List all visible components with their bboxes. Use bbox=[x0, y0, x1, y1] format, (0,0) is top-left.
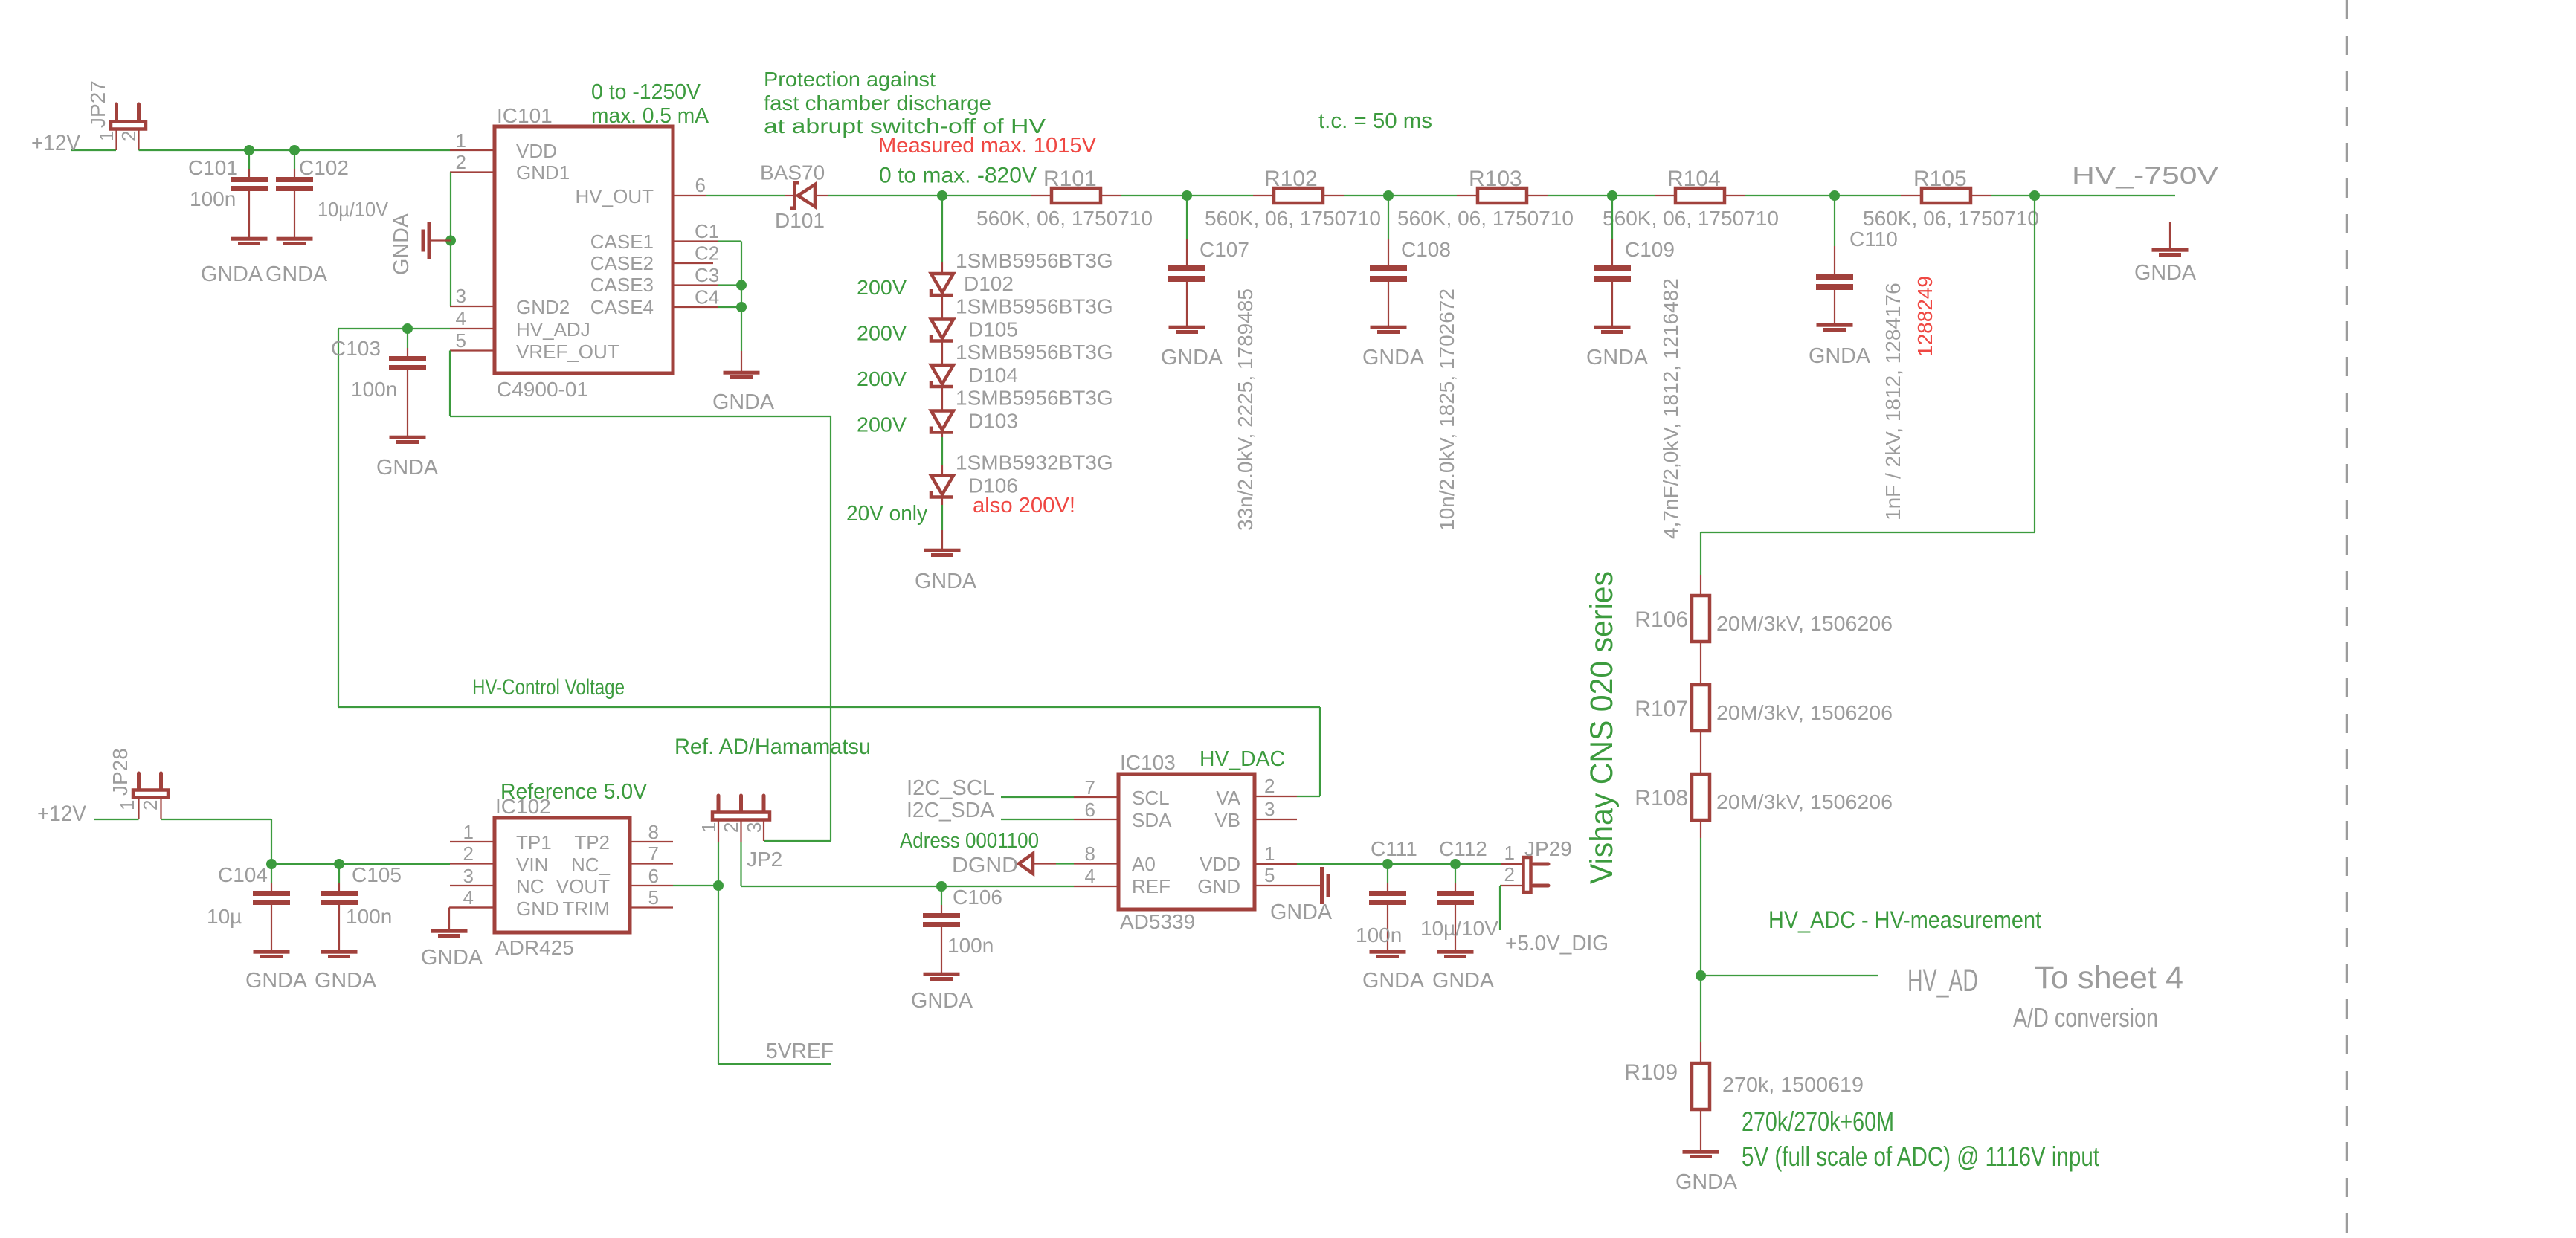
junction at C108 bbox=[1383, 190, 1394, 201]
svg-text:VDD: VDD bbox=[1200, 853, 1240, 875]
net +12V (top) wire left segment bbox=[71, 149, 116, 151]
value C110 (rotated) bbox=[1881, 283, 1904, 520]
svg-text:560K, 06, 1750710: 560K, 06, 1750710 bbox=[1603, 207, 1779, 230]
svg-text:3: 3 bbox=[463, 865, 474, 887]
ground GNDA (C102) bbox=[265, 262, 328, 286]
label R108 bbox=[1635, 786, 1688, 810]
ground label GNDA (zener chain) bbox=[915, 570, 977, 593]
IC102 pin name TRIM bbox=[562, 897, 610, 920]
svg-text:CASE2: CASE2 bbox=[590, 252, 654, 274]
value C102 10u/10V bbox=[318, 198, 388, 221]
resistor R105 bbox=[1901, 188, 1991, 203]
svg-text:1SMB5956BT3G: 1SMB5956BT3G bbox=[956, 295, 1113, 318]
jumper JP29 bbox=[1501, 857, 1548, 892]
JP29 pin 2 number bbox=[1504, 863, 1515, 886]
wire HV-Control drop to VA bbox=[1297, 707, 1320, 796]
annotation HV_DAC bbox=[1200, 747, 1285, 771]
net label HV_-750V bbox=[2072, 162, 2219, 189]
IC101 pin 5 stub bbox=[450, 349, 495, 351]
IC102 pin name VOUT bbox=[556, 875, 610, 897]
ground label GNDA (IC103 pin5) bbox=[1270, 900, 1333, 924]
ground symbol GNDA (IC101 case) bbox=[724, 307, 760, 379]
svg-text:R102: R102 bbox=[1264, 167, 1318, 191]
wire 5VREF bbox=[718, 886, 831, 1064]
annotation Ref. AD/Hamamatsu bbox=[674, 735, 871, 759]
svg-text:C2: C2 bbox=[695, 242, 719, 265]
svg-text:TRIM: TRIM bbox=[562, 897, 610, 920]
lead to D106 bbox=[941, 465, 943, 474]
svg-text:DGND: DGND bbox=[952, 854, 1018, 877]
junction at C106 bbox=[936, 881, 947, 892]
svg-text:Protection against: Protection against bbox=[764, 68, 936, 91]
svg-text:10µ/10V: 10µ/10V bbox=[318, 198, 388, 221]
IC101 pin name CASE3 bbox=[590, 274, 654, 296]
label R105 bbox=[1913, 167, 1967, 191]
svg-text:R105: R105 bbox=[1913, 167, 1967, 191]
svg-text:GNDA: GNDA bbox=[1161, 346, 1223, 370]
label C105 bbox=[352, 863, 402, 886]
wire rail seg4 bbox=[1344, 195, 1388, 196]
IC103 pin 8 number bbox=[1085, 842, 1095, 865]
svg-text:IC103: IC103 bbox=[1120, 751, 1176, 774]
svg-text:HV_OUT: HV_OUT bbox=[576, 185, 654, 207]
annotation Protection line2 bbox=[764, 91, 991, 115]
ground GNDA (C110) bbox=[1809, 344, 1871, 368]
junction CASE4 bbox=[736, 302, 747, 312]
capacitor C112 bbox=[1437, 864, 1474, 958]
svg-text:GNDA: GNDA bbox=[1586, 346, 1649, 370]
svg-text:2: 2 bbox=[720, 822, 742, 833]
IC102 pin name VIN bbox=[516, 854, 548, 876]
ground symbol GNDA (right) bbox=[2152, 222, 2189, 257]
label C101 bbox=[188, 156, 238, 179]
value R101 bbox=[976, 207, 1153, 230]
value R109 bbox=[1722, 1073, 1864, 1096]
IC101 pin name CASE4 bbox=[590, 296, 654, 318]
value R103 bbox=[1397, 207, 1574, 230]
IC101 pin name HV_OUT bbox=[576, 185, 654, 207]
svg-text:GNDA: GNDA bbox=[315, 969, 377, 993]
svg-text:VIN: VIN bbox=[516, 854, 548, 876]
junction at C105 bbox=[334, 859, 344, 869]
annotation HV_ADC - HV-measurement bbox=[1768, 906, 2041, 933]
JP28 pin 1 number bbox=[116, 800, 138, 810]
wire C106 to REF bbox=[941, 886, 1074, 887]
label C3 bbox=[695, 264, 719, 286]
IC103 pin 1 number bbox=[1264, 842, 1275, 865]
wire VOUT to junction bbox=[673, 885, 718, 886]
svg-text:33n/2.0kV, 2225, 1789485: 33n/2.0kV, 2225, 1789485 bbox=[1234, 288, 1257, 531]
svg-text:HV-Control Voltage: HV-Control Voltage bbox=[472, 675, 625, 700]
svg-text:100n: 100n bbox=[190, 187, 236, 210]
wire JP2 pin1 to junction bbox=[718, 842, 719, 886]
value C4900-01 bbox=[497, 378, 588, 401]
capacitor C107 bbox=[1168, 196, 1205, 334]
value AD5339 bbox=[1120, 910, 1195, 933]
svg-text:R107: R107 bbox=[1635, 697, 1688, 721]
svg-text:A/D conversion: A/D conversion bbox=[2013, 1002, 2158, 1033]
IC103 pin 3 number bbox=[1264, 798, 1275, 820]
IC103 pin 7 number bbox=[1085, 776, 1095, 799]
svg-text:A0: A0 bbox=[1132, 853, 1156, 875]
lead D105-D104 bbox=[941, 343, 943, 364]
annotation HV-Control Voltage bbox=[472, 675, 625, 700]
IC103 pin name A0 bbox=[1132, 853, 1156, 875]
capacitor C106 bbox=[923, 886, 960, 981]
svg-text:max. 0.5 mA: max. 0.5 mA bbox=[591, 104, 709, 128]
label D101 bbox=[775, 209, 825, 232]
wire rail seg3 bbox=[1187, 195, 1253, 196]
junction at C109 bbox=[1607, 190, 1617, 201]
JP27 pin 2 number bbox=[117, 131, 140, 141]
svg-text:R101: R101 bbox=[1043, 167, 1097, 191]
svg-text:I2C_SCL: I2C_SCL bbox=[907, 776, 994, 800]
annotation 20V only bbox=[846, 502, 927, 526]
ground GNDA (C104) bbox=[245, 969, 308, 993]
zener diode D103 bbox=[931, 411, 953, 433]
label IC102 bbox=[495, 795, 551, 818]
IC101 pin 6 number bbox=[695, 174, 706, 196]
IC101 pin name CASE2 bbox=[590, 252, 654, 274]
IC102 pin name TP2 bbox=[574, 831, 610, 854]
voltage reference IC102 box bbox=[495, 818, 630, 932]
label IC101 bbox=[497, 104, 553, 127]
annotation Vishay CNS 020 series (rotated) bbox=[1584, 571, 1620, 884]
value C111 bbox=[1356, 923, 1402, 947]
svg-text:5VREF: 5VREF bbox=[766, 1039, 834, 1063]
svg-text:1: 1 bbox=[456, 129, 466, 152]
diode D101 BAS70 bbox=[785, 183, 828, 208]
IC102 pin name TP1 bbox=[516, 831, 552, 854]
value C103 100n bbox=[351, 378, 397, 401]
zener diode D104 bbox=[931, 365, 953, 387]
label R101 bbox=[1043, 167, 1097, 191]
svg-text:8: 8 bbox=[1085, 842, 1095, 865]
capacitor C109 bbox=[1594, 196, 1631, 334]
junction at C111 bbox=[1382, 859, 1393, 869]
svg-text:Ref. AD/Hamamatsu: Ref. AD/Hamamatsu bbox=[674, 735, 871, 759]
JP29 pin 1 number bbox=[1504, 842, 1515, 864]
svg-text:C106: C106 bbox=[953, 886, 1002, 909]
svg-text:5: 5 bbox=[648, 886, 659, 909]
annotation 200V (D105) bbox=[857, 322, 907, 345]
capacitor C108 bbox=[1370, 196, 1407, 334]
svg-text:IC102: IC102 bbox=[495, 795, 551, 818]
svg-text:1nF / 2kV, 1812, 1284176: 1nF / 2kV, 1812, 1284176 bbox=[1881, 283, 1904, 520]
svg-text:GNDA: GNDA bbox=[1270, 900, 1333, 924]
IC101 CASE1 stub bbox=[673, 240, 718, 242]
svg-text:C111: C111 bbox=[1371, 837, 1417, 860]
IC101 pin name GND2 bbox=[516, 296, 570, 318]
jumper JP27 bbox=[111, 104, 146, 150]
op-amp/HV module IC101 box bbox=[495, 126, 673, 373]
value R108 bbox=[1716, 790, 1893, 813]
label C108 bbox=[1401, 238, 1451, 261]
annotation 270k/270k+60M bbox=[1742, 1106, 1894, 1137]
svg-text:C101: C101 bbox=[188, 156, 238, 179]
svg-text:+12V: +12V bbox=[37, 802, 86, 826]
svg-text:CASE1: CASE1 bbox=[590, 230, 654, 253]
label D103 bbox=[968, 410, 1018, 433]
svg-text:I2C_SDA: I2C_SDA bbox=[907, 799, 995, 822]
label JP29 bbox=[1524, 837, 1572, 860]
label C109 bbox=[1625, 238, 1675, 261]
annotation 200V (D102) bbox=[857, 276, 907, 299]
junction CASE3 bbox=[736, 280, 747, 291]
ground symbol GNDA (IC102) bbox=[431, 908, 495, 938]
annotation 200V (D103) bbox=[857, 413, 907, 436]
IC103 pin name REF bbox=[1132, 875, 1171, 897]
svg-text:2: 2 bbox=[456, 151, 466, 173]
label R109 bbox=[1624, 1060, 1678, 1085]
annotation Protection against line1 bbox=[764, 68, 936, 91]
svg-text:GNDA: GNDA bbox=[1362, 969, 1425, 993]
label BAS70 bbox=[760, 161, 825, 184]
wire rail seg5 bbox=[1388, 195, 1457, 196]
label C110 bbox=[1849, 228, 1898, 251]
svg-text:+12V: +12V bbox=[31, 131, 80, 155]
ground label GNDA (IC102) bbox=[421, 946, 483, 970]
svg-text:+5.0V_DIG: +5.0V_DIG bbox=[1505, 932, 1609, 955]
label D105 bbox=[968, 318, 1018, 341]
label C4 bbox=[695, 286, 719, 309]
IC102 pin 7 stub bbox=[630, 863, 673, 864]
svg-text:1SMB5932BT3G: 1SMB5932BT3G bbox=[956, 451, 1113, 474]
ground label GNDA (IC101, rotated) bbox=[390, 213, 413, 275]
IC102 pin 6 number bbox=[648, 865, 659, 887]
resistor R102 bbox=[1253, 188, 1344, 203]
svg-text:5: 5 bbox=[1264, 864, 1275, 886]
IC102 pin 2 number bbox=[463, 842, 474, 865]
IC101 pin 3 stub bbox=[450, 306, 495, 307]
label 1SMB5956BT3G (D105) bbox=[956, 295, 1113, 318]
ground GNDA (C111) bbox=[1362, 969, 1425, 993]
svg-text:To sheet 4: To sheet 4 bbox=[2035, 960, 2183, 996]
svg-text:t.c. = 50 ms: t.c. = 50 ms bbox=[1318, 109, 1432, 133]
svg-text:6: 6 bbox=[648, 865, 659, 887]
wire HV divider top bbox=[1701, 196, 2035, 575]
svg-text:1SMB5956BT3G: 1SMB5956BT3G bbox=[956, 249, 1113, 272]
svg-text:2: 2 bbox=[139, 800, 161, 810]
svg-text:100n: 100n bbox=[346, 905, 392, 928]
wire to IC102 VIN bbox=[271, 863, 450, 865]
resistor R108 bbox=[1692, 774, 1710, 838]
svg-text:IC101: IC101 bbox=[497, 104, 553, 127]
svg-text:CASE4: CASE4 bbox=[590, 296, 654, 318]
wire HV-Control horizontal bbox=[338, 706, 1320, 708]
label C107 bbox=[1200, 238, 1249, 261]
label C102 bbox=[299, 156, 349, 179]
label D104 bbox=[968, 364, 1018, 387]
svg-text:6: 6 bbox=[695, 174, 706, 196]
label 1SMB5932BT3G (D106) bbox=[956, 451, 1113, 474]
svg-text:GNDA: GNDA bbox=[1809, 344, 1871, 368]
svg-text:C107: C107 bbox=[1200, 238, 1249, 261]
IC101 pin 1 number bbox=[456, 129, 466, 152]
IC101 pin 1 stub bbox=[450, 149, 495, 151]
svg-text:Vishay CNS 020 series: Vishay CNS 020 series bbox=[1584, 571, 1620, 884]
svg-text:1: 1 bbox=[463, 821, 474, 843]
net label I2C_SDA bbox=[907, 799, 995, 822]
svg-text:Measured max. 1015V: Measured max. 1015V bbox=[878, 134, 1097, 158]
ground label GNDA (R109) bbox=[1675, 1170, 1738, 1194]
svg-text:20M/3kV, 1506206: 20M/3kV, 1506206 bbox=[1716, 790, 1893, 813]
svg-text:GNDA: GNDA bbox=[712, 390, 775, 414]
svg-text:5: 5 bbox=[456, 329, 466, 352]
net label I2C_SCL bbox=[907, 776, 994, 800]
svg-text:2: 2 bbox=[117, 131, 140, 141]
svg-text:20V only: 20V only bbox=[846, 502, 927, 526]
IC101 pin name GND1 bbox=[516, 161, 570, 184]
annotation Reference 5.0V bbox=[500, 780, 648, 804]
svg-text:GNDA: GNDA bbox=[2134, 261, 2197, 285]
junction GNDA (IC101) bbox=[445, 236, 456, 246]
IC102 pin name NC_ bbox=[571, 854, 611, 876]
svg-text:R106: R106 bbox=[1635, 607, 1688, 632]
svg-text:R103: R103 bbox=[1469, 167, 1522, 191]
annotation 200V (D104) bbox=[857, 367, 907, 390]
svg-text:4,7nF/2,0kV, 1812, 1216482: 4,7nF/2,0kV, 1812, 1216482 bbox=[1659, 278, 1682, 539]
svg-text:2: 2 bbox=[463, 842, 474, 865]
value C106 100n bbox=[947, 934, 994, 957]
sheet frame dashed line bbox=[2346, 0, 2348, 1238]
svg-text:also 200V!: also 200V! bbox=[973, 494, 1075, 518]
zener diode D102 bbox=[931, 274, 953, 295]
svg-text:D101: D101 bbox=[775, 209, 825, 232]
svg-text:NC_: NC_ bbox=[571, 854, 611, 876]
ground GNDA (C103) bbox=[376, 456, 439, 480]
net +12V (bottom) wire left bbox=[94, 819, 139, 820]
IC103 pin 5 number bbox=[1264, 864, 1275, 886]
IC103 pin name VA bbox=[1216, 787, 1240, 809]
ground symbol GNDA (IC103 pin5) bbox=[1297, 867, 1330, 904]
lead to D102 bbox=[941, 262, 943, 272]
svg-text:200V: 200V bbox=[857, 367, 907, 390]
svg-text:GNDA: GNDA bbox=[265, 262, 328, 286]
IC103 pin 2 stub bbox=[1255, 796, 1297, 797]
IC102 pin 6 stub bbox=[630, 885, 673, 886]
value R105 bbox=[1863, 207, 2039, 230]
net label +12V (bottom) bbox=[37, 802, 86, 826]
svg-text:GNDA: GNDA bbox=[915, 570, 977, 593]
svg-text:C4: C4 bbox=[695, 286, 719, 309]
lead D103 down bbox=[941, 434, 943, 438]
svg-text:GNDA: GNDA bbox=[201, 262, 263, 286]
JP2 pin 1 number bbox=[698, 822, 720, 833]
value R106 bbox=[1716, 612, 1893, 635]
resistor R109 bbox=[1692, 1042, 1710, 1150]
ground GNDA (C105) bbox=[315, 969, 377, 993]
svg-text:ADR425: ADR425 bbox=[495, 936, 574, 959]
wire I2C_SDA bbox=[1001, 819, 1074, 820]
label 1SMB5956BT3G (D104) bbox=[956, 341, 1113, 364]
svg-text:4: 4 bbox=[463, 886, 474, 909]
svg-text:SCL: SCL bbox=[1132, 787, 1170, 809]
IC102 pin 5 stub bbox=[630, 906, 673, 908]
svg-text:REF: REF bbox=[1132, 875, 1171, 897]
wire D101 to junction bbox=[828, 195, 942, 196]
svg-text:GNDA: GNDA bbox=[421, 946, 483, 970]
svg-text:7: 7 bbox=[648, 842, 659, 865]
label D106 bbox=[968, 474, 1018, 497]
net label +12V (top) bbox=[31, 131, 80, 155]
svg-text:4: 4 bbox=[456, 307, 466, 329]
svg-text:10µ/10V: 10µ/10V bbox=[1420, 917, 1498, 940]
IC101 pin 4 stub bbox=[450, 328, 495, 329]
IC101 pin 5 number bbox=[456, 329, 466, 352]
label R106 bbox=[1635, 607, 1688, 632]
svg-text:0 to -1250V: 0 to -1250V bbox=[591, 80, 701, 104]
svg-text:3: 3 bbox=[456, 285, 466, 307]
net +12V wire to IC101 VDD bbox=[139, 149, 451, 151]
svg-text:200V: 200V bbox=[857, 276, 907, 299]
svg-text:Adress 0001100: Adress 0001100 bbox=[900, 829, 1039, 853]
svg-text:1SMB5956BT3G: 1SMB5956BT3G bbox=[956, 341, 1113, 364]
wire D103-D106 bbox=[941, 437, 943, 465]
label R104 bbox=[1667, 167, 1721, 191]
svg-text:GND: GND bbox=[1197, 875, 1240, 897]
IC103 pin name VB bbox=[1214, 809, 1240, 831]
IC101 pin 2 stub bbox=[450, 171, 495, 173]
svg-text:560K, 06, 1750710: 560K, 06, 1750710 bbox=[976, 207, 1153, 230]
value C109 (rotated) bbox=[1659, 278, 1682, 539]
annotation 1288249 (rotated) bbox=[1913, 276, 1936, 357]
IC101 pin name HV_ADJ bbox=[516, 318, 590, 341]
svg-text:VB: VB bbox=[1214, 809, 1240, 831]
svg-text:JP2: JP2 bbox=[747, 848, 782, 871]
IC103 pin 8 stub bbox=[1074, 863, 1118, 864]
svg-text:R108: R108 bbox=[1635, 786, 1688, 810]
svg-text:C112: C112 bbox=[1439, 837, 1487, 860]
label C104 bbox=[218, 863, 268, 886]
IC102 pin 1 number bbox=[463, 821, 474, 843]
junction at C104 bbox=[266, 859, 277, 869]
svg-text:VA: VA bbox=[1216, 787, 1240, 809]
svg-text:HV_ADJ: HV_ADJ bbox=[516, 318, 590, 341]
label C1 bbox=[695, 220, 719, 242]
svg-text:3: 3 bbox=[1264, 798, 1275, 820]
svg-text:GNDA: GNDA bbox=[245, 969, 308, 993]
JP2 pin 3 number bbox=[743, 822, 765, 833]
IC103 pin 7 stub bbox=[1074, 796, 1118, 798]
svg-text:VDD: VDD bbox=[516, 140, 557, 162]
svg-text:HV_ADC - HV-measurement: HV_ADC - HV-measurement bbox=[1768, 906, 2041, 933]
svg-text:GNDA: GNDA bbox=[1675, 1170, 1738, 1194]
value ADR425 bbox=[495, 936, 574, 959]
label C106 bbox=[953, 886, 1002, 909]
svg-text:7: 7 bbox=[1085, 776, 1095, 799]
svg-text:1SMB5956BT3G: 1SMB5956BT3G bbox=[956, 387, 1113, 410]
svg-text:GNDA: GNDA bbox=[390, 213, 413, 275]
svg-text:D104: D104 bbox=[968, 364, 1018, 387]
annotation 5V full scale bbox=[1742, 1141, 2100, 1172]
label JP2 bbox=[747, 848, 782, 871]
svg-text:GNDA: GNDA bbox=[911, 989, 973, 1013]
resistor R104 bbox=[1655, 188, 1745, 203]
wire rail to D102 bbox=[941, 196, 943, 262]
junction HV rail / zener chain bbox=[937, 190, 947, 201]
resistor R106 bbox=[1692, 575, 1710, 685]
zener diode D106 bbox=[931, 476, 953, 497]
svg-text:200V: 200V bbox=[857, 413, 907, 436]
wire CASE1 to CASE4 bbox=[718, 242, 741, 308]
svg-text:4: 4 bbox=[1085, 865, 1095, 887]
svg-text:1288249: 1288249 bbox=[1913, 276, 1936, 357]
svg-text:3: 3 bbox=[743, 822, 765, 833]
svg-text:8: 8 bbox=[648, 821, 659, 843]
svg-text:560K, 06, 1750710: 560K, 06, 1750710 bbox=[1397, 207, 1574, 230]
DAC IC103 box bbox=[1118, 774, 1255, 909]
